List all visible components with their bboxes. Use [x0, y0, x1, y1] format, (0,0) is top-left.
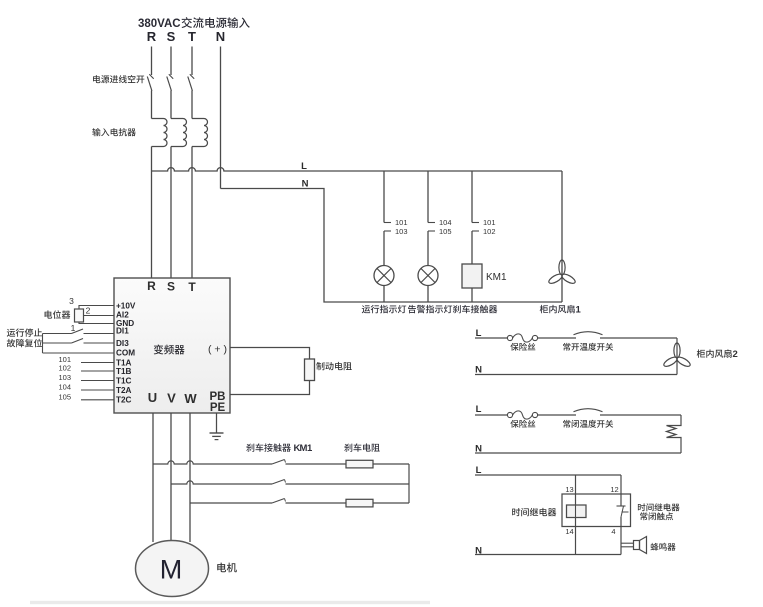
svg-text:104: 104 [439, 218, 452, 227]
svg-text:+10V: +10V [116, 302, 136, 311]
svg-text:14: 14 [565, 527, 573, 536]
svg-text:L: L [476, 404, 482, 415]
svg-text:W: W [184, 391, 197, 406]
svg-text:U: U [148, 390, 157, 405]
svg-text:102: 102 [58, 364, 71, 373]
svg-text:KM1: KM1 [486, 272, 507, 283]
svg-text:12: 12 [610, 485, 618, 494]
svg-text:L: L [476, 465, 482, 476]
svg-text:105: 105 [439, 227, 452, 236]
svg-text:101: 101 [395, 218, 408, 227]
svg-text:S: S [167, 280, 175, 294]
svg-text:DI3: DI3 [116, 339, 129, 348]
svg-text:3: 3 [69, 296, 74, 306]
svg-text:N: N [475, 365, 482, 376]
svg-text:N: N [302, 179, 309, 190]
svg-text:R: R [147, 279, 156, 293]
svg-text:1: 1 [307, 443, 313, 454]
svg-text:103: 103 [58, 373, 71, 382]
svg-text:1: 1 [576, 305, 582, 316]
svg-text:T2C: T2C [116, 396, 132, 405]
svg-text:COM: COM [116, 349, 135, 358]
svg-text:4: 4 [611, 527, 615, 536]
svg-text:T: T [188, 280, 196, 294]
svg-text:104: 104 [58, 383, 71, 392]
svg-text:13: 13 [565, 485, 573, 494]
svg-text:L: L [301, 161, 307, 172]
svg-text:R: R [147, 29, 157, 44]
svg-text:103: 103 [395, 227, 408, 236]
svg-text:T: T [188, 29, 196, 44]
svg-text:T1B: T1B [116, 367, 132, 376]
svg-text:PE: PE [210, 402, 226, 414]
svg-text:T2A: T2A [116, 386, 132, 395]
svg-text:101: 101 [483, 218, 496, 227]
svg-text:DI1: DI1 [116, 327, 129, 336]
svg-text:102: 102 [483, 227, 496, 236]
svg-text:M: M [160, 555, 183, 585]
svg-text:N: N [216, 29, 225, 44]
svg-text:105: 105 [58, 392, 71, 401]
svg-text:( + ): ( + ) [208, 344, 227, 356]
svg-text:2: 2 [733, 349, 738, 360]
svg-text:L: L [476, 328, 482, 339]
svg-text:1: 1 [71, 323, 76, 333]
svg-text:S: S [167, 29, 176, 44]
svg-text:V: V [167, 391, 176, 406]
svg-text:T1C: T1C [116, 377, 132, 386]
svg-text:2: 2 [86, 306, 91, 316]
